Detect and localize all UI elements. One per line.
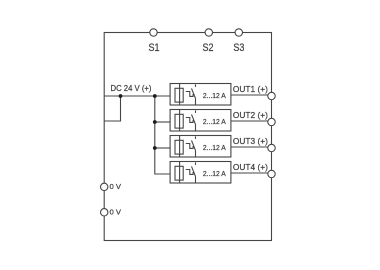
svg-text:OUT1 (+): OUT1 (+) [233, 84, 268, 94]
wire stub to block 3 [155, 147, 170, 149]
svg-text:OUT4 (+): OUT4 (+) [233, 162, 268, 172]
wire stub to block 2 [155, 121, 170, 123]
svg-text:S3: S3 [233, 42, 244, 54]
svg-text:S1: S1 [149, 42, 160, 54]
svg-text:S2: S2 [203, 42, 214, 54]
terminal 0V upper [101, 183, 108, 190]
node junction dot C [153, 120, 157, 124]
circuit breaker F3 [170, 136, 231, 158]
circuit breaker F1 [170, 84, 231, 106]
svg-text:0 V: 0 V [110, 207, 122, 216]
wire output stub 1 [231, 94, 268, 96]
terminal 0V lower [101, 209, 108, 216]
svg-text:OUT3 (+): OUT3 (+) [233, 136, 268, 146]
wire DC 24 V feed [104, 95, 170, 97]
terminal OUT2 [268, 118, 275, 125]
wire jumper jog to left rail [104, 96, 120, 121]
node junction dot A [119, 94, 123, 98]
terminal OUT4 [268, 170, 275, 177]
svg-text:2...12 A: 2...12 A [203, 145, 226, 152]
terminal OUT3 [268, 144, 275, 151]
svg-text:0 V: 0 V [110, 182, 122, 191]
node junction dot B [153, 94, 157, 98]
terminal S1 [150, 29, 157, 36]
wire output stub 2 [231, 120, 268, 122]
svg-text:2...12 A: 2...12 A [203, 119, 226, 126]
svg-text:OUT2 (+): OUT2 (+) [233, 110, 268, 120]
wire outer loop (top/right/bottom/left rails) [104, 33, 271, 241]
wire output stub 4 [231, 172, 268, 174]
wire output stub 3 [231, 146, 268, 148]
svg-text:2...12 A: 2...12 A [203, 171, 226, 178]
svg-text:DC 24 V (+): DC 24 V (+) [111, 83, 152, 93]
node junction dot D [153, 146, 157, 150]
circuit breaker F4 [170, 162, 231, 184]
circuit breaker F2 [170, 110, 231, 132]
wire vertical feed bus [155, 96, 170, 174]
terminal S2 [205, 29, 212, 36]
svg-text:2...12 A: 2...12 A [203, 93, 226, 100]
terminal S3 [235, 29, 242, 36]
terminal OUT1 [268, 92, 275, 99]
